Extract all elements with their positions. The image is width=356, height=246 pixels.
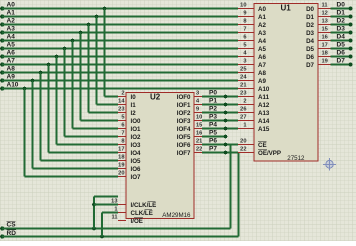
U1 pin 10 (A0) bbox=[238, 8, 254, 10]
wire A8 vertical to U2 bbox=[40, 73, 42, 161]
U2 pin 4 (IOF1) bbox=[194, 104, 202, 106]
svg-text:A15: A15 bbox=[258, 126, 270, 133]
svg-text:21: 21 bbox=[196, 139, 202, 145]
svg-text:A5: A5 bbox=[258, 46, 266, 53]
svg-text:10: 10 bbox=[240, 3, 246, 9]
svg-text:27512: 27512 bbox=[287, 155, 305, 162]
wire A5 vertical to U2 bbox=[64, 49, 66, 137]
svg-text:OE/VPP: OE/VPP bbox=[258, 150, 281, 157]
node A8 terminal bbox=[0, 71, 4, 75]
wire A6 vertical to U2 bbox=[56, 57, 58, 145]
wire A9 elbow to U2 pin bbox=[33, 168, 119, 170]
wire P3 bbox=[202, 120, 238, 122]
U2 pin 8 (IO3) bbox=[118, 144, 126, 146]
node A1 terminal bbox=[0, 15, 4, 19]
svg-text:5: 5 bbox=[121, 115, 124, 121]
U2 pin 9 (IOF2) bbox=[194, 112, 202, 114]
svg-text:3: 3 bbox=[243, 59, 246, 65]
svg-text:P6: P6 bbox=[209, 138, 217, 145]
svg-text:IOF2: IOF2 bbox=[177, 110, 191, 117]
junction on A8 bbox=[39, 71, 43, 75]
svg-text:CS: CS bbox=[7, 222, 17, 229]
svg-text:IOF5: IOF5 bbox=[177, 134, 191, 141]
svg-text:16: 16 bbox=[322, 35, 328, 41]
wire D2 bbox=[331, 24, 351, 26]
U1 pin 11 (D0) bbox=[318, 8, 331, 10]
U2 pin 20 (IO7) bbox=[118, 176, 126, 178]
U2 pin 10 (IOF3) bbox=[194, 120, 202, 122]
U1 pin 16 (D4) bbox=[318, 40, 331, 42]
U2 pin 19 (IO6) bbox=[118, 168, 126, 170]
U1 pin 25 (A8) bbox=[238, 72, 254, 74]
wire D5 bbox=[331, 48, 351, 50]
U1 pin 5 (A5) bbox=[238, 48, 254, 50]
svg-text:A9: A9 bbox=[258, 78, 266, 85]
U2 pin 7 (IO2) bbox=[118, 136, 126, 138]
svg-text:A4: A4 bbox=[258, 38, 266, 45]
svg-text:5: 5 bbox=[243, 43, 246, 49]
svg-text:IOF7: IOF7 bbox=[177, 150, 191, 157]
junction CS branch bbox=[92, 227, 96, 231]
svg-text:P1: P1 bbox=[209, 98, 217, 105]
svg-text:IO5: IO5 bbox=[131, 158, 142, 165]
svg-text:I0: I0 bbox=[131, 94, 137, 101]
svg-text:14: 14 bbox=[118, 99, 125, 105]
wire A6 elbow to U2 pin bbox=[57, 144, 119, 146]
svg-text:A6: A6 bbox=[7, 50, 16, 57]
U1 pin 12 (D1) bbox=[318, 16, 331, 18]
node A9 terminal bbox=[0, 79, 4, 83]
svg-text:6: 6 bbox=[121, 123, 124, 129]
wire A5 elbow to U2 pin bbox=[65, 136, 119, 138]
svg-text:D0: D0 bbox=[337, 2, 346, 9]
svg-text:IOF4: IOF4 bbox=[177, 126, 191, 133]
wire CS vertical to U2 bbox=[93, 197, 95, 229]
wire P5 bbox=[202, 136, 226, 138]
wire A0 elbow to U2 pin bbox=[105, 96, 119, 98]
node A3 terminal bbox=[0, 31, 4, 35]
svg-text:A12: A12 bbox=[258, 102, 270, 109]
wire P7 bbox=[202, 152, 238, 154]
svg-text:A10: A10 bbox=[7, 82, 19, 89]
svg-text:A1: A1 bbox=[258, 14, 266, 21]
node CS terminal bbox=[0, 227, 4, 231]
svg-text:CLK/LE: CLK/LE bbox=[131, 210, 153, 217]
svg-text:A8: A8 bbox=[258, 70, 266, 77]
junction P0 bbox=[224, 95, 228, 99]
junction P7 bbox=[224, 151, 228, 155]
svg-text:19: 19 bbox=[118, 163, 124, 169]
junction on A1 bbox=[95, 15, 99, 19]
svg-text:P7: P7 bbox=[209, 146, 217, 153]
wire A10 elbow to U2 pin bbox=[25, 176, 119, 178]
U2 pin 2 (I0) bbox=[118, 96, 126, 98]
wire D0 bbox=[331, 8, 351, 10]
svg-text:IO6: IO6 bbox=[131, 166, 142, 173]
U1 pin 20 (CE) bbox=[238, 144, 254, 146]
junction P6 bbox=[224, 143, 228, 147]
svg-text:17: 17 bbox=[118, 147, 124, 153]
svg-text:20: 20 bbox=[240, 139, 246, 145]
svg-text:D5: D5 bbox=[306, 46, 314, 53]
svg-text:24: 24 bbox=[240, 75, 247, 81]
U1 pin 21 (A10) bbox=[238, 88, 254, 90]
wire RD horizontal bbox=[2, 236, 239, 238]
wire D1 bbox=[331, 16, 351, 18]
svg-text:D7: D7 bbox=[306, 62, 314, 69]
svg-text:13: 13 bbox=[322, 19, 328, 25]
U1 pin 23 (A11) bbox=[238, 96, 254, 98]
node A2 terminal bbox=[0, 23, 4, 27]
svg-text:P4: P4 bbox=[209, 122, 217, 129]
U1 pin 3 (A7) bbox=[238, 64, 254, 66]
svg-text:9: 9 bbox=[243, 11, 246, 17]
U1 pin 24 (A9) bbox=[238, 80, 254, 82]
svg-text:D2: D2 bbox=[337, 18, 346, 25]
U2 pin 22 (IOF7) bbox=[194, 152, 202, 154]
svg-text:19: 19 bbox=[322, 59, 328, 65]
svg-text:IO2: IO2 bbox=[131, 134, 142, 141]
svg-text:D1: D1 bbox=[306, 14, 314, 21]
U2 pin 6 (IO1) bbox=[118, 128, 126, 130]
svg-text:D6: D6 bbox=[306, 54, 314, 61]
svg-text:A5: A5 bbox=[7, 42, 16, 49]
svg-text:A13: A13 bbox=[258, 110, 270, 117]
svg-text:18: 18 bbox=[118, 155, 124, 161]
svg-text:IOF3: IOF3 bbox=[177, 118, 191, 125]
U1 pin 9 (A1) bbox=[238, 16, 254, 18]
U1 pin 18 (D6) bbox=[318, 56, 331, 58]
U2 pin 15 (IOF4) bbox=[194, 128, 202, 130]
svg-text:A9: A9 bbox=[7, 74, 16, 81]
wire A8 horizontal bbox=[2, 72, 238, 74]
junction CLK/LE bbox=[92, 203, 96, 207]
svg-text:A8: A8 bbox=[7, 66, 16, 73]
junction on A5 bbox=[63, 47, 67, 51]
U1 pin 6 (A4) bbox=[238, 40, 254, 42]
svg-text:9: 9 bbox=[196, 107, 199, 113]
wire to U2 pin 1 bbox=[94, 204, 118, 206]
U1 pin 13 (D2) bbox=[318, 24, 331, 26]
wire CE vertical bbox=[230, 145, 232, 229]
wire A10 horizontal bbox=[2, 88, 238, 90]
U1 pin 17 (D5) bbox=[318, 48, 331, 50]
wire A10 vertical to U2 bbox=[24, 89, 26, 177]
node A7 terminal bbox=[0, 63, 4, 67]
wire A3 horizontal bbox=[2, 32, 238, 34]
svg-text:IOF0: IOF0 bbox=[177, 94, 191, 101]
U1 pin 8 (A2) bbox=[238, 24, 254, 26]
svg-text:P3: P3 bbox=[209, 114, 217, 121]
wire A8 elbow to U2 pin bbox=[41, 160, 119, 162]
wire A9 vertical to U2 bbox=[32, 81, 34, 169]
junction on A3 bbox=[79, 31, 83, 35]
svg-text:10: 10 bbox=[196, 115, 202, 121]
U2 pin 14 (I1) bbox=[118, 104, 126, 106]
U2 pin 11 bbox=[118, 220, 126, 222]
node A4 terminal bbox=[0, 39, 4, 43]
U1 pin 15 (D3) bbox=[318, 32, 331, 34]
svg-text:IO7: IO7 bbox=[131, 174, 142, 181]
svg-text:D5: D5 bbox=[337, 42, 346, 49]
wire A2 elbow to U2 pin bbox=[89, 112, 119, 114]
junction on A9 bbox=[31, 79, 35, 83]
wire A1 horizontal bbox=[2, 16, 238, 18]
wire A7 elbow to U2 pin bbox=[49, 152, 119, 154]
svg-text:12: 12 bbox=[322, 11, 328, 17]
node D0 terminal bbox=[349, 7, 353, 11]
svg-text:15: 15 bbox=[196, 123, 202, 129]
U1 pin 2 (A12) bbox=[238, 104, 254, 106]
svg-text:27: 27 bbox=[240, 115, 246, 121]
junction on A2 bbox=[87, 23, 91, 27]
U2 pin 16 (IOF5) bbox=[194, 136, 202, 138]
svg-text:A2: A2 bbox=[7, 18, 16, 25]
wire A7 vertical to U2 bbox=[48, 65, 50, 153]
svg-text:1: 1 bbox=[243, 123, 246, 129]
U2 pin 5 (IO0) bbox=[118, 120, 126, 122]
wire A2 vertical to U2 bbox=[88, 25, 90, 113]
origin marker bbox=[323, 158, 336, 171]
svg-text:26: 26 bbox=[240, 107, 246, 113]
junction P2 bbox=[224, 111, 228, 115]
wire A3 elbow to U2 pin bbox=[81, 120, 119, 122]
junction P1 bbox=[224, 103, 228, 107]
wire A0 vertical to U2 bbox=[104, 9, 106, 97]
svg-text:A7: A7 bbox=[258, 62, 266, 69]
wire D6 bbox=[331, 56, 351, 58]
svg-text:8: 8 bbox=[243, 19, 246, 25]
junction on A10 bbox=[23, 87, 27, 91]
svg-text:2: 2 bbox=[121, 91, 124, 97]
wire P0 bbox=[202, 96, 238, 98]
svg-text:I/CLK/LE: I/CLK/LE bbox=[131, 202, 157, 209]
svg-text:A6: A6 bbox=[258, 54, 266, 61]
node D2 terminal bbox=[349, 23, 353, 27]
wire A1 elbow to U2 pin bbox=[97, 104, 119, 106]
U1 pin 4 (A6) bbox=[238, 56, 254, 58]
U2 pin 21 (IOF6) bbox=[194, 144, 202, 146]
wire A9 horizontal bbox=[2, 80, 238, 82]
U2 pin 13 bbox=[118, 204, 126, 206]
wire to U2 pin 13 bbox=[94, 196, 118, 198]
node A10 terminal bbox=[0, 87, 4, 91]
svg-text:D3: D3 bbox=[337, 26, 346, 33]
svg-text:I2: I2 bbox=[131, 110, 137, 117]
svg-text:U2: U2 bbox=[150, 93, 161, 102]
junction RD branch bbox=[100, 235, 104, 239]
U1 pin 26 (A13) bbox=[238, 112, 254, 114]
wire D7 bbox=[331, 64, 351, 66]
svg-text:15: 15 bbox=[322, 27, 328, 33]
U1 pin 1 (A15) bbox=[238, 128, 254, 130]
svg-text:U1: U1 bbox=[281, 4, 292, 13]
wire A7 horizontal bbox=[2, 64, 238, 66]
U2 pin 3 (IOF0) bbox=[194, 96, 202, 98]
U2 pin 18 (IO5) bbox=[118, 160, 126, 162]
svg-text:IO3: IO3 bbox=[131, 142, 142, 149]
junction P5 bbox=[224, 135, 228, 139]
svg-text:22: 22 bbox=[196, 147, 202, 153]
wire P6 bbox=[202, 144, 238, 146]
wire CS horizontal bbox=[2, 228, 231, 230]
svg-text:23: 23 bbox=[240, 91, 246, 97]
svg-text:D4: D4 bbox=[306, 38, 314, 45]
U2 pin 1 bbox=[118, 212, 126, 214]
node D3 terminal bbox=[349, 31, 353, 35]
svg-text:7: 7 bbox=[243, 27, 246, 33]
node D6 terminal bbox=[349, 55, 353, 59]
wire A5 horizontal bbox=[2, 48, 238, 50]
svg-text:D4: D4 bbox=[337, 34, 346, 41]
svg-text:IO0: IO0 bbox=[131, 118, 142, 125]
node D7 terminal bbox=[349, 63, 353, 67]
svg-text:A3: A3 bbox=[7, 26, 16, 33]
svg-text:A11: A11 bbox=[258, 94, 270, 101]
svg-text:A1: A1 bbox=[7, 10, 16, 17]
svg-text:A14: A14 bbox=[258, 118, 270, 125]
svg-text:7: 7 bbox=[121, 131, 124, 137]
wire D4 bbox=[331, 40, 351, 42]
svg-text:IO4: IO4 bbox=[131, 150, 142, 157]
svg-text:22: 22 bbox=[240, 147, 246, 153]
wire A1 vertical to U2 bbox=[96, 17, 98, 105]
svg-text:P2: P2 bbox=[209, 106, 217, 113]
svg-text:IO1: IO1 bbox=[131, 126, 142, 133]
svg-text:I/OE: I/OE bbox=[131, 218, 143, 225]
svg-text:IOF1: IOF1 bbox=[177, 102, 191, 109]
svg-text:P5: P5 bbox=[209, 130, 217, 137]
U1 pin 7 (A3) bbox=[238, 32, 254, 34]
U2 pin 23 (I2) bbox=[118, 112, 126, 114]
wire A4 horizontal bbox=[2, 40, 238, 42]
svg-text:18: 18 bbox=[322, 51, 328, 57]
node A0 terminal bbox=[0, 7, 4, 11]
wire OE vertical bbox=[238, 153, 240, 237]
svg-text:AM29M16: AM29M16 bbox=[162, 212, 191, 219]
svg-text:D1: D1 bbox=[337, 10, 346, 17]
svg-text:6: 6 bbox=[243, 35, 246, 41]
U2 pin 17 (IO4) bbox=[118, 152, 126, 154]
svg-text:17: 17 bbox=[322, 43, 328, 49]
junction P3 bbox=[224, 119, 228, 123]
wire D3 bbox=[331, 32, 351, 34]
wire A4 elbow to U2 pin bbox=[73, 128, 119, 130]
svg-text:11: 11 bbox=[322, 3, 328, 9]
svg-text:D7: D7 bbox=[337, 58, 346, 65]
junction P4 bbox=[224, 127, 228, 131]
wire A4 vertical to U2 bbox=[72, 41, 74, 129]
svg-text:A4: A4 bbox=[7, 34, 16, 41]
U1 pin 22 (OE/VPP) bbox=[238, 152, 254, 154]
wire P4 bbox=[202, 128, 238, 130]
node D1 terminal bbox=[349, 15, 353, 19]
svg-text:A10: A10 bbox=[258, 86, 270, 93]
junction on A0 bbox=[103, 7, 107, 11]
wire P2 bbox=[202, 112, 238, 114]
wire A6 horizontal bbox=[2, 56, 238, 58]
IC U2 body bbox=[126, 93, 194, 219]
node A5 terminal bbox=[0, 47, 4, 51]
svg-text:20: 20 bbox=[118, 171, 124, 177]
wire A3 vertical to U2 bbox=[80, 33, 82, 121]
U1 pin 27 (A14) bbox=[238, 120, 254, 122]
svg-text:A2: A2 bbox=[258, 22, 266, 29]
svg-text:CE: CE bbox=[258, 142, 267, 149]
wire to U2 pin 11 bbox=[102, 212, 118, 214]
svg-text:A0: A0 bbox=[7, 2, 16, 9]
junction on A6 bbox=[55, 55, 59, 59]
node D4 terminal bbox=[349, 39, 353, 43]
svg-text:21: 21 bbox=[240, 83, 246, 89]
svg-text:A3: A3 bbox=[258, 30, 266, 37]
node A6 terminal bbox=[0, 55, 4, 59]
IC U1 body bbox=[254, 4, 318, 162]
svg-text:D2: D2 bbox=[306, 22, 314, 29]
svg-text:D3: D3 bbox=[306, 30, 314, 37]
svg-text:16: 16 bbox=[196, 131, 202, 137]
svg-text:23: 23 bbox=[118, 107, 124, 113]
svg-text:A7: A7 bbox=[7, 58, 16, 65]
svg-text:P0: P0 bbox=[209, 90, 217, 97]
svg-text:2: 2 bbox=[243, 99, 246, 105]
svg-text:I1: I1 bbox=[131, 102, 137, 109]
svg-text:D6: D6 bbox=[337, 50, 346, 57]
junction on A4 bbox=[71, 39, 75, 43]
svg-text:D0: D0 bbox=[306, 6, 314, 13]
svg-text:11: 11 bbox=[111, 215, 117, 221]
U1 pin 19 (D7) bbox=[318, 64, 331, 66]
wire RD vertical to U2 bbox=[101, 213, 103, 237]
svg-text:IOF6: IOF6 bbox=[177, 142, 191, 149]
wire P1 bbox=[202, 104, 238, 106]
wire A0 horizontal bbox=[2, 8, 238, 10]
svg-text:8: 8 bbox=[121, 139, 124, 145]
svg-text:3: 3 bbox=[196, 91, 199, 97]
svg-text:25: 25 bbox=[240, 67, 246, 73]
wire A2 horizontal bbox=[2, 24, 238, 26]
junction on A7 bbox=[47, 63, 51, 67]
node D5 terminal bbox=[349, 47, 353, 51]
node RD terminal bbox=[0, 235, 4, 239]
svg-text:A0: A0 bbox=[258, 6, 266, 13]
